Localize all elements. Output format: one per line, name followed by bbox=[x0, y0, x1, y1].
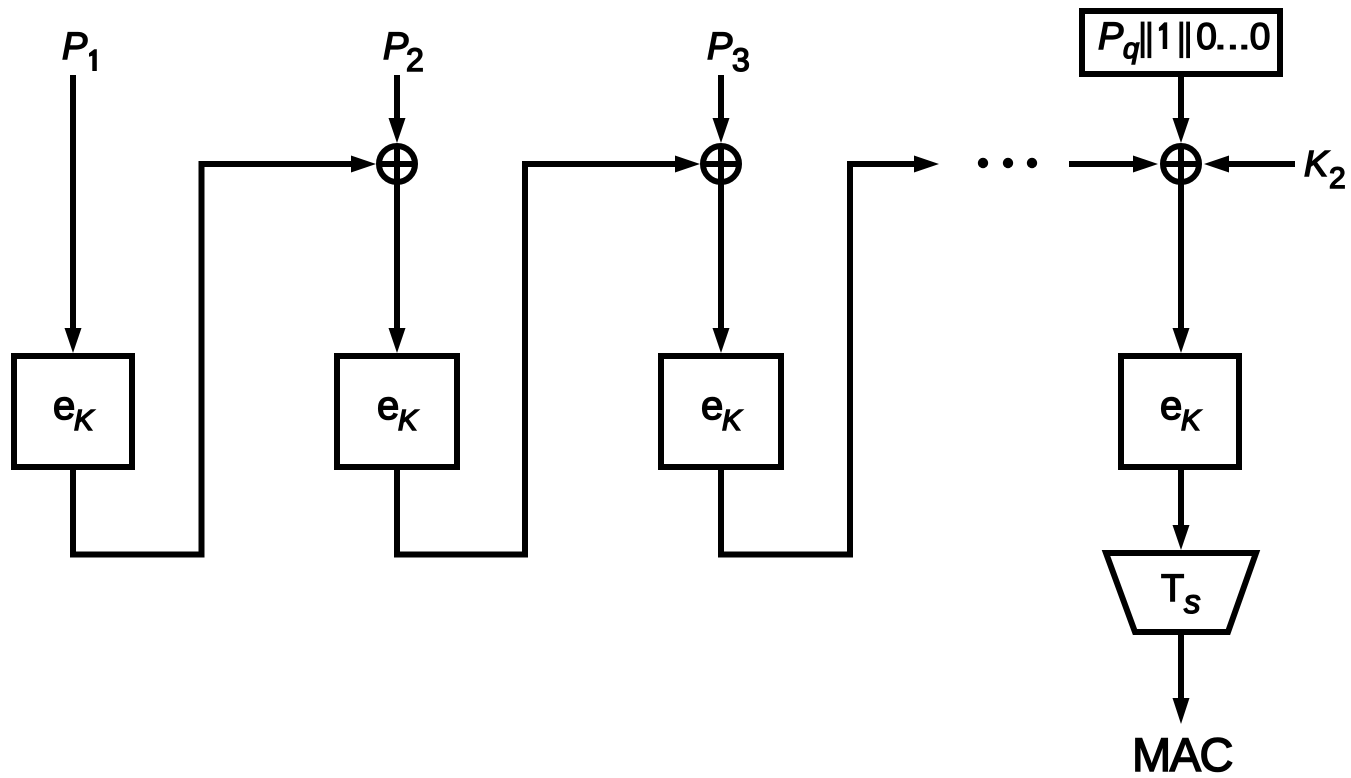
svg-text:0: 0 bbox=[1250, 16, 1271, 57]
wire dots to X4 bbox=[1069, 156, 1158, 173]
label MAC bbox=[1132, 728, 1233, 778]
wire K2 to X4 bbox=[1204, 156, 1295, 173]
trapezoid Ts truncation bbox=[1106, 553, 1256, 632]
svg-text:P: P bbox=[1098, 16, 1124, 58]
xor X4 bbox=[1163, 146, 1199, 182]
block E1 e_K bbox=[14, 356, 132, 467]
svg-text:K: K bbox=[398, 405, 419, 437]
xor X3 bbox=[703, 146, 739, 182]
wire loop1 E1 to X2 bbox=[73, 156, 376, 555]
label P1 bbox=[62, 26, 97, 71]
wire E4 to Ts bbox=[1173, 467, 1190, 550]
svg-text:K: K bbox=[722, 405, 743, 437]
svg-text:K: K bbox=[74, 405, 95, 437]
label P3 bbox=[707, 26, 750, 78]
svg-text:e: e bbox=[377, 384, 399, 428]
wire Pq box to X4 bbox=[1173, 77, 1190, 143]
block Pq padded input box bbox=[1082, 11, 1280, 74]
label P2 bbox=[383, 26, 424, 78]
block E2 e_K bbox=[337, 356, 457, 467]
svg-text:0: 0 bbox=[1196, 16, 1217, 57]
svg-text:MAC: MAC bbox=[1132, 728, 1233, 778]
svg-text:2: 2 bbox=[1329, 162, 1346, 195]
wire X3 to E3 bbox=[713, 182, 730, 353]
wire Ts to MAC bbox=[1173, 632, 1190, 724]
wire X2 to E2 bbox=[389, 182, 406, 353]
svg-text:3: 3 bbox=[732, 42, 750, 78]
svg-text:P: P bbox=[62, 26, 88, 68]
wire X4 to E4 bbox=[1173, 182, 1190, 353]
wire P1 to E1 bbox=[65, 75, 82, 353]
svg-text:e: e bbox=[53, 384, 75, 428]
svg-text:e: e bbox=[1160, 384, 1182, 428]
xor X2 bbox=[379, 146, 415, 182]
svg-text:e: e bbox=[701, 384, 723, 428]
block E3 e_K bbox=[661, 356, 781, 467]
wire P3 to X3 bbox=[713, 75, 730, 143]
svg-text:T: T bbox=[1161, 568, 1184, 610]
svg-text:s: s bbox=[1184, 583, 1201, 620]
wire loop2 E2 to X3 bbox=[397, 156, 700, 555]
svg-text:P: P bbox=[707, 26, 733, 68]
svg-text:q: q bbox=[1123, 33, 1139, 65]
block E4 e_K bbox=[1121, 356, 1239, 467]
wire P2 to X2 bbox=[389, 75, 406, 143]
label K2 bbox=[1304, 143, 1346, 195]
svg-text:K: K bbox=[1304, 143, 1330, 184]
svg-text:K: K bbox=[1181, 405, 1202, 437]
svg-text:2: 2 bbox=[406, 42, 424, 78]
wire loop3 E3 to dots bbox=[721, 156, 939, 555]
dots ellipsis bbox=[978, 158, 1037, 168]
